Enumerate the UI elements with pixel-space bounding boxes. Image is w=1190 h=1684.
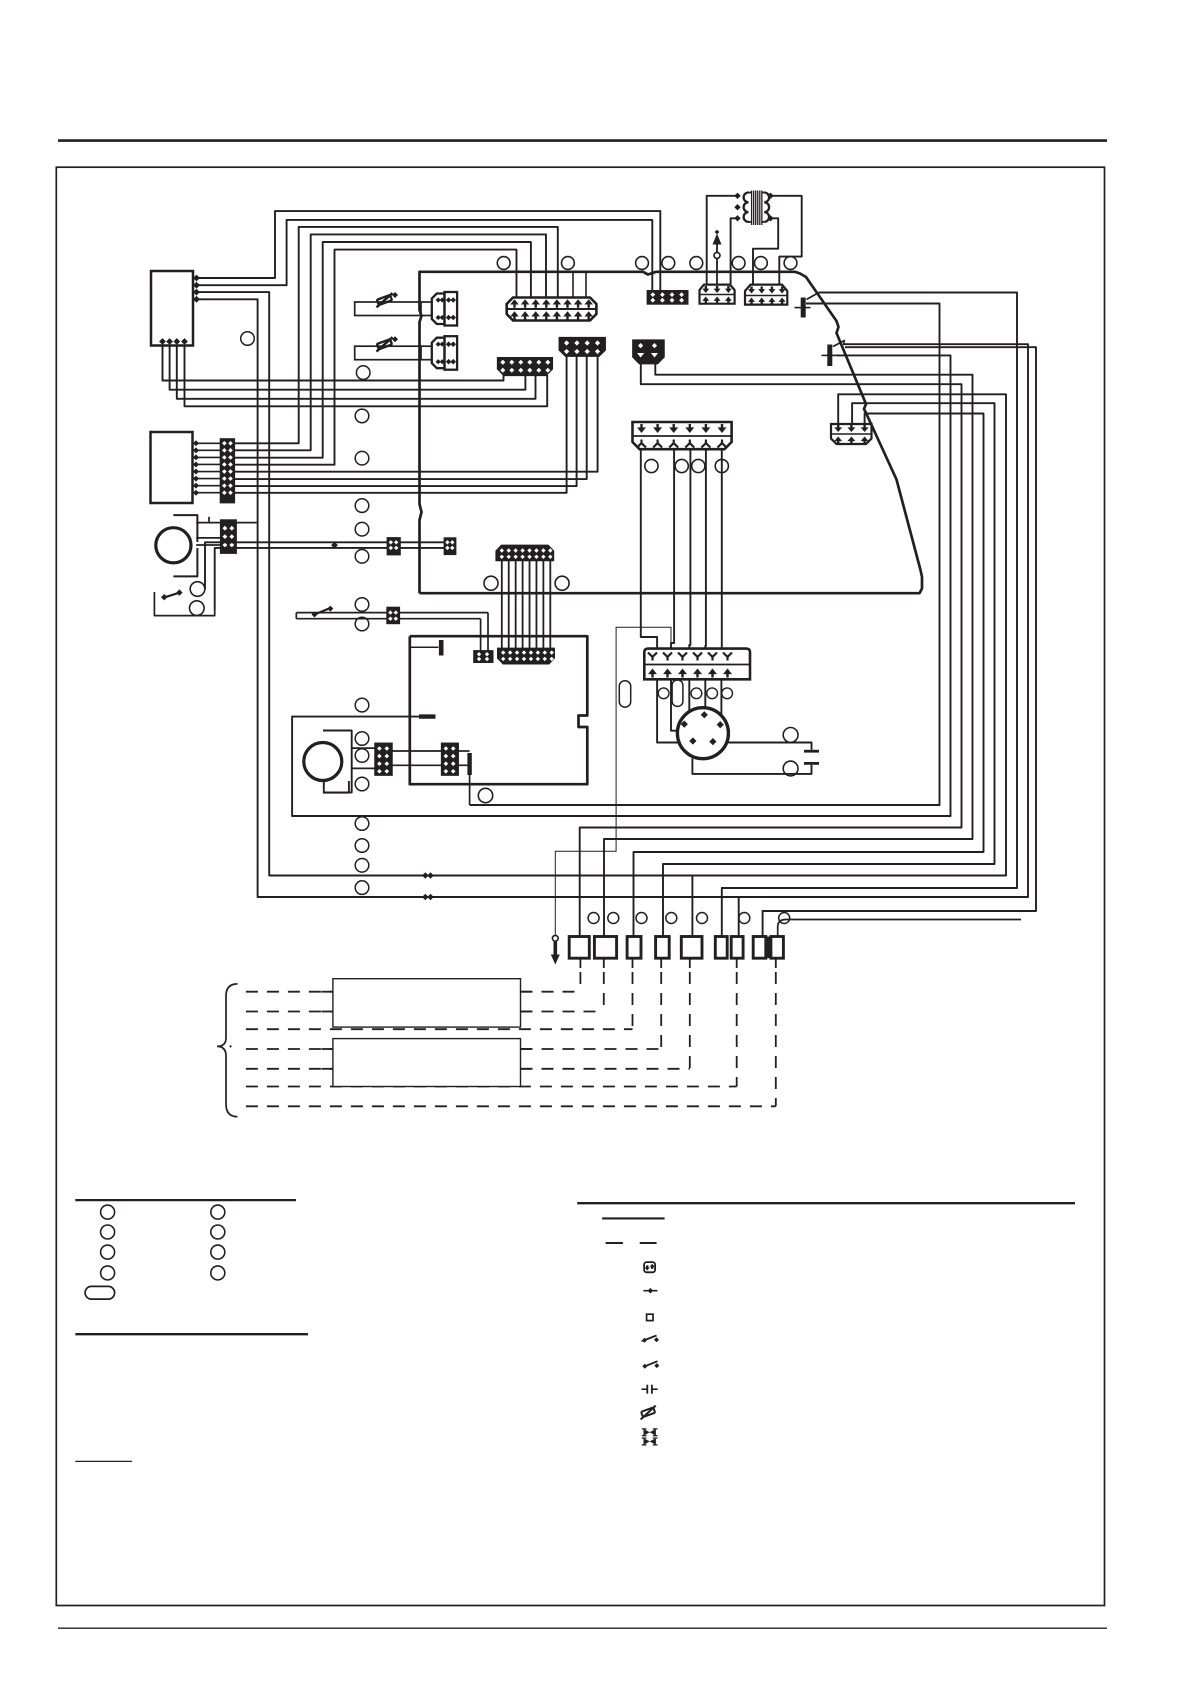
wire bus 5 (box B pin3 to connector CN4) <box>234 242 531 458</box>
insulator sleeve 2 <box>672 680 683 706</box>
brace <box>217 984 238 1117</box>
wire bus 1 (box A pin1 to connector CN6) <box>193 211 660 292</box>
inline connector K4 <box>474 651 493 662</box>
terminal T5 <box>681 937 702 959</box>
ribbon wires <box>501 560 503 648</box>
connector K2 <box>432 294 445 325</box>
wire plug2 upper lead <box>843 341 845 345</box>
fuse F2 holder <box>355 346 421 360</box>
wire ignition lead 1b to terminal nest <box>470 304 940 806</box>
dashed drop terminal T1 <box>579 958 581 968</box>
splice on long wire 2 <box>422 894 428 900</box>
motor leads <box>352 747 376 749</box>
inline connector K1b <box>445 538 456 554</box>
ribbon label circles <box>484 576 498 590</box>
main switch arm <box>315 608 331 615</box>
dashed drop terminal T5 <box>689 958 691 968</box>
wire terminal T6 right riser <box>738 897 740 937</box>
connector CN7 <box>831 424 872 444</box>
connector K6 <box>442 744 458 775</box>
legend symbol frame ground <box>647 1314 653 1320</box>
legend left circles column 1 <box>101 1205 115 1219</box>
connector strip S2 <box>221 520 236 553</box>
legend symbol connector pair <box>644 1429 656 1436</box>
dashed row 2 <box>246 1011 333 1013</box>
wires K6 to post <box>458 750 470 752</box>
dashed drop terminal T7 <box>775 958 777 968</box>
CDI unit box <box>410 636 588 784</box>
starter motor bracket <box>323 731 352 793</box>
wire end arrow <box>331 542 338 549</box>
inline connector K3 <box>387 608 399 624</box>
control box B <box>151 432 193 503</box>
wire pair switch to inline connectors <box>205 542 445 589</box>
legend symbol fuse <box>638 1405 659 1419</box>
terminal T4 <box>656 937 670 959</box>
wire bus 6 (box B pin4 to connector CN4) <box>234 250 517 465</box>
wires fuse F1 to connector <box>421 301 432 303</box>
wire CN7 pin2 to terminal T4 <box>663 403 995 936</box>
starter motor lower bracket <box>324 781 349 793</box>
wires fuse F2 to connector <box>421 345 432 347</box>
wire ignition lead 1a to terminal T6 <box>722 293 1017 937</box>
dashed row 1 <box>246 991 333 993</box>
ignition coil lead plug 2 <box>827 345 832 367</box>
solenoid leads to strip S2 <box>196 522 221 524</box>
box A right pins <box>193 275 200 282</box>
legend solid line sample <box>602 1217 665 1219</box>
fuse label circle <box>356 366 370 380</box>
box A bottom pins <box>159 338 166 345</box>
wire CN7 pin3 to terminal T3 <box>634 414 984 937</box>
distributor rotor <box>677 708 728 759</box>
fuse F1 holder <box>355 302 421 316</box>
legend left circles column 2 <box>211 1205 225 1219</box>
wire bus 2 (box A pin2 to connector CN6) <box>193 220 652 292</box>
legend stadium symbol <box>85 1286 115 1299</box>
wire long run (box A pin3, left vertical to lower nest) <box>193 292 1006 875</box>
legend right heading rule <box>577 1202 1075 1204</box>
legend dashed line sample <box>606 1242 623 1244</box>
sender wire (thin) <box>555 627 671 935</box>
connector strip S1 (box B harness) <box>221 439 234 502</box>
stop switch arm <box>163 593 180 598</box>
choke solenoid motor <box>156 528 191 563</box>
dashed row 7 <box>246 1105 776 1107</box>
wire label circles row <box>497 257 510 270</box>
engine harness boundary outline <box>420 272 923 593</box>
connector CN4 (8-pin strip) <box>507 298 597 321</box>
dashed row 5 <box>246 1068 333 1070</box>
box B pins and leads <box>193 440 199 446</box>
wire terminal T7 right with bend <box>778 920 1021 937</box>
label circle near box A <box>241 332 255 346</box>
CN1 pin label circles <box>658 688 669 699</box>
wire bus 3 (box B pin1 to connector CN4) <box>234 227 558 443</box>
insulator sleeve 1 <box>619 681 630 707</box>
legend left note rule <box>75 1460 132 1462</box>
legend symbol connector block <box>644 1262 655 1272</box>
connector CN9 <box>745 285 787 305</box>
legend left second rule <box>75 1333 308 1335</box>
dashed row 4 <box>246 1048 333 1050</box>
dashed drop terminal T6 <box>736 958 738 968</box>
connector K3 <box>432 338 445 369</box>
dashed drop terminal T3 <box>632 958 634 968</box>
control box A <box>151 271 193 346</box>
splice on long wire <box>422 872 428 878</box>
inline connector K1a <box>388 538 400 555</box>
terminal T3 <box>627 937 641 959</box>
terminal T7 (double with key) <box>753 937 766 959</box>
ribbon connector lower <box>498 648 554 663</box>
terminal T6 (double) <box>715 937 727 959</box>
dashed drop terminal T4 <box>660 958 662 968</box>
wire ignition lead 2a to terminal T7 <box>763 347 1036 936</box>
terminal label circles <box>588 913 599 924</box>
legend left heading rule <box>75 1199 296 1201</box>
wire ignition lead 2b via motor enclosure <box>292 355 950 816</box>
connector CN2 (6-pin) <box>633 422 732 449</box>
legend symbol switch b <box>645 1361 658 1366</box>
wire label circles column <box>355 409 369 423</box>
label circle below CDI <box>478 788 492 802</box>
connector CN8 <box>700 285 735 304</box>
wire pair K5 to K6 <box>392 750 442 752</box>
wire strip S2 to junction <box>236 522 257 524</box>
choke solenoid bracket <box>173 515 197 542</box>
dashed row 3 <box>246 1028 633 1030</box>
connector CN6 (black 8-pin) <box>648 291 688 304</box>
condenser label circles <box>783 728 798 743</box>
connector CN1 (6-pin) <box>644 649 750 680</box>
wires CN2 to CN1 <box>641 449 657 648</box>
CDI terminal post <box>439 640 444 656</box>
condenser circuit <box>728 743 811 750</box>
stop switch label circles <box>190 582 205 597</box>
wire post down to nest <box>469 775 471 805</box>
wire CN3 pin b to terminal T1 <box>580 363 962 937</box>
terminal T2 <box>594 937 616 959</box>
CDI terminal bar <box>419 714 436 718</box>
fuse F2 element <box>374 337 396 351</box>
legend symbol switch a <box>644 1336 657 1341</box>
wires CN1 to distributor <box>657 679 678 742</box>
terminal T1 <box>569 937 589 959</box>
remote control unit box 2 <box>333 1039 521 1087</box>
solid leads into control boxes <box>321 991 333 993</box>
wire bus 4 (box B pin2 to connector CN4) <box>234 234 546 450</box>
wire CN3 pin a to terminal T2 <box>604 363 973 937</box>
wires box B to connector CN5 <box>234 357 598 472</box>
wire terminal T5 riser <box>691 876 693 937</box>
legend symbol condenser <box>642 1388 648 1390</box>
ignition coil lead plug 1 <box>801 298 806 318</box>
main switch wire pair <box>295 613 297 619</box>
ignition coil transformer <box>744 193 749 222</box>
trigger arrow symbol <box>716 244 718 285</box>
battery post bar <box>467 753 471 775</box>
coil secondary wires <box>771 196 802 285</box>
legend symbol splice <box>643 1290 657 1292</box>
connector CN3 <box>633 340 664 364</box>
wires box A to connector strip S3 <box>163 346 504 381</box>
coil primary wires <box>707 196 738 285</box>
CN2 pin label circles <box>645 459 658 472</box>
stubs CN4 to harness edge <box>572 272 574 298</box>
starter motor <box>304 743 342 781</box>
page bottom rule <box>58 1627 1107 1629</box>
remote control unit box 1 <box>333 979 521 1027</box>
dashed drop terminal T2 <box>603 958 605 968</box>
coil pins <box>734 193 740 199</box>
stop switch housing <box>154 592 214 616</box>
page top rule <box>58 139 1107 142</box>
ground arrow terminal <box>552 935 558 941</box>
wire long run (box A pin4 to lower nest) <box>193 299 1028 897</box>
fuse F1 element <box>374 293 396 307</box>
connector K5 <box>375 744 392 775</box>
dashed row 6 <box>246 1086 737 1088</box>
connector S4 (4-pin) <box>559 338 605 357</box>
diagram border frame <box>56 167 1104 1605</box>
connector strip S3 <box>498 358 553 376</box>
ribbon connector upper <box>496 545 553 560</box>
